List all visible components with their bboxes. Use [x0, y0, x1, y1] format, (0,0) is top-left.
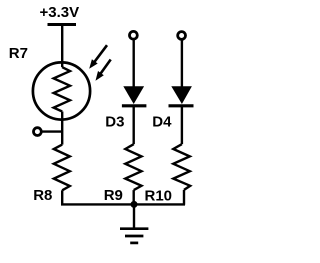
svg-text:R9: R9: [104, 187, 123, 204]
svg-text:D4: D4: [152, 113, 172, 130]
diode D3 cathode bar: [122, 104, 146, 107]
light arrow 2 head: [96, 71, 104, 81]
R7 zigzag element: [54, 67, 70, 111]
ground bar 3: [130, 242, 138, 245]
diode D4 cathode bar: [169, 104, 194, 107]
ground bar 1: [120, 227, 148, 230]
light arrow 1 head: [89, 59, 98, 69]
resistor R10 zigzag: [173, 144, 190, 190]
diode D4 triangle: [171, 86, 192, 104]
wire T3 to D4: [181, 39, 183, 88]
svg-text:+3.3V: +3.3V: [40, 4, 80, 21]
wire power bar to R7: [61, 25, 63, 68]
svg-text:R8: R8: [33, 187, 52, 204]
svg-text:R7: R7: [9, 45, 28, 62]
svg-text:D3: D3: [105, 113, 124, 130]
terminal T1 open circle: [34, 128, 42, 136]
wire T1 to node: [41, 130, 62, 132]
photoresistor R7 circle: [33, 62, 90, 119]
resistor R9 zigzag: [125, 144, 141, 190]
terminal T2 (D3 anode) open circle: [130, 31, 138, 39]
wire R7 bottom to R8: [61, 112, 63, 145]
ground bus wire: [61, 203, 185, 205]
diode D3 triangle: [123, 86, 144, 104]
wire D4 to R10: [181, 106, 183, 144]
wire R10 to ground bus: [183, 190, 185, 205]
light arrow 1 shaft: [94, 45, 107, 62]
ground stub wire: [133, 204, 135, 228]
junction dot node GND: [131, 201, 138, 208]
wire R8 to ground bus: [61, 190, 63, 204]
wire R9 to junction: [132, 190, 134, 205]
terminal T3 (D4 anode) open circle: [178, 32, 186, 40]
wire T2 to D3: [132, 39, 134, 88]
wire D3 to R9: [132, 106, 134, 144]
ground bar 2: [125, 235, 143, 238]
svg-text:R10: R10: [145, 188, 173, 205]
power supply bar +3.3V: [48, 23, 77, 26]
resistor R8 zigzag: [54, 145, 70, 191]
light arrow 2 shaft: [100, 60, 111, 75]
